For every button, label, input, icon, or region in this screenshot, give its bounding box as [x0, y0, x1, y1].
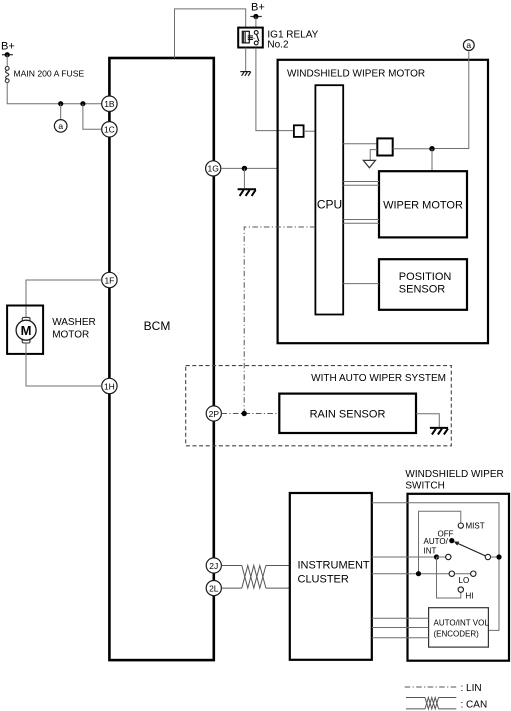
wire cluster to switch row1 [372, 556, 437, 558]
wire junction to circle a [60, 104, 62, 120]
rain sensor box [279, 394, 416, 433]
svg-text:HI: HI [466, 592, 474, 601]
instrument cluster box [290, 493, 372, 660]
wire cluster to encoder 2 [372, 627, 429, 629]
svg-text:INSTRUMENT: INSTRUMENT [298, 560, 370, 572]
svg-text:INT: INT [424, 546, 437, 555]
encoder box [429, 608, 489, 647]
svg-text:B+: B+ [1, 41, 15, 53]
contact row2 right [471, 571, 476, 576]
wire cluster to switch common (top) [372, 503, 499, 631]
wire cluster to encoder 3 [372, 637, 429, 639]
svg-text:No.2: No.2 [267, 39, 289, 50]
svg-text:a: a [466, 40, 471, 50]
wire CPU to position sensor [343, 283, 379, 285]
connector 1G [206, 161, 221, 176]
svg-text:LO: LO [459, 576, 470, 585]
wire relay coil to ground [245, 48, 247, 72]
svg-text:B+: B+ [251, 2, 265, 14]
wire HI branch [437, 557, 461, 598]
wiper motor inner box [379, 171, 467, 237]
wire B+ to fuse [6, 55, 8, 67]
node B+ (battery, left) [1, 41, 15, 58]
washer motor box [7, 306, 43, 354]
svg-text:MOTOR: MOTOR [52, 330, 89, 341]
position sensor box [379, 259, 467, 310]
svg-text:WASHER: WASHER [52, 317, 96, 328]
rotary pivot node [449, 538, 454, 543]
wire B+ to relay switch [255, 17, 257, 28]
wire common to right rail [491, 556, 499, 558]
legend LIN line [405, 686, 458, 688]
wire cluster to encoder 1 [372, 617, 429, 619]
svg-text:1C: 1C [104, 125, 115, 135]
contact row2 left [449, 571, 454, 576]
node junction to a [58, 101, 63, 106]
node junction right rail [496, 554, 501, 559]
wire a down to motor node [435, 51, 469, 148]
svg-text:SENSOR: SENSOR [399, 284, 446, 296]
contact HI [458, 587, 463, 592]
wire CPU to wiper motor pair1 [343, 182, 379, 186]
svg-text:1H: 1H [104, 381, 115, 391]
svg-text:WINDSHIELD WIPER: WINDSHIELD WIPER [405, 469, 503, 480]
svg-text:1G: 1G [208, 164, 219, 174]
node junction row2 [416, 571, 421, 576]
svg-text:RAIN SENSOR: RAIN SENSOR [310, 408, 386, 420]
connector 1F [102, 272, 117, 287]
svg-text:: LIN: : LIN [461, 683, 482, 694]
contact row1 [446, 554, 451, 559]
connector 2P [206, 406, 221, 421]
windshield wiper switch box [408, 494, 510, 661]
BCM box [109, 58, 213, 660]
connector 2J [206, 558, 221, 573]
node junction to 1C [80, 101, 85, 106]
svg-text:AUTO/INT VOL: AUTO/INT VOL [434, 618, 490, 627]
rotary arm with arrowhead [454, 542, 486, 556]
svg-text:1B: 1B [104, 99, 115, 109]
wire square to output triangle [370, 150, 377, 161]
wire CPU to drive square [343, 143, 377, 145]
node a (left) [54, 120, 67, 133]
ground (rain sensor) [430, 428, 448, 435]
wire square to CPU [304, 130, 316, 132]
wire square to wiper motor node [393, 148, 432, 150]
contact common [485, 554, 490, 559]
output triangle [363, 160, 375, 167]
svg-text:a: a [58, 121, 63, 131]
relay IG1 RELAY No.2 [238, 28, 263, 48]
svg-text:(ENCODER): (ENCODER) [434, 629, 480, 638]
wire CAN 2J to cluster with twisted pair [221, 566, 289, 589]
svg-text:1F: 1F [104, 275, 114, 285]
CPU box [315, 85, 343, 314]
connector 2L [206, 581, 221, 596]
wire relay switch to CPU input square [256, 48, 294, 131]
wire MIST branch [419, 511, 461, 574]
node B+ (relay) [250, 2, 264, 20]
with auto wiper system dashed box [186, 366, 452, 446]
node junction LIN [242, 411, 247, 416]
legend CAN symbol [406, 698, 456, 709]
svg-text:MAIN 200 A FUSE: MAIN 200 A FUSE [14, 69, 85, 79]
wire fuse to 1B [7, 83, 102, 104]
wire node down to wiper motor [431, 149, 433, 172]
wire BCM top to relay coil [175, 9, 246, 58]
svg-text:POSITION: POSITION [399, 271, 452, 283]
connector square (power in) [294, 125, 304, 137]
connector 1C [102, 122, 117, 137]
wire junction to 1C [83, 104, 102, 130]
ground (relay coil) [240, 72, 250, 76]
svg-text:SWITCH: SWITCH [405, 481, 444, 492]
ground (1G) [238, 189, 256, 196]
svg-text:BCM: BCM [144, 319, 171, 333]
wire 1G to motor box [221, 167, 278, 169]
motor M symbol [16, 317, 36, 343]
svg-text:: CAN: : CAN [461, 699, 488, 710]
node junction ground 1G [242, 166, 247, 171]
wire LIN CPU to rain sensor branch (dash-dot) [244, 227, 315, 414]
svg-text:M: M [21, 323, 32, 338]
wire rain sensor to ground [416, 414, 439, 427]
svg-text:2J: 2J [209, 561, 218, 571]
node a (right) [463, 40, 474, 51]
svg-text:MIST: MIST [466, 521, 485, 530]
svg-text:AUTO/: AUTO/ [424, 537, 449, 546]
wire CPU to wiper motor pair2 [343, 220, 379, 224]
wire junction to ground [243, 168, 245, 188]
connector 1B [102, 96, 117, 111]
wire LIN 2P to rain sensor (dash-dot) [221, 413, 279, 415]
connector 1H [102, 378, 117, 393]
fuse MAIN 200 A FUSE [5, 67, 84, 83]
node switch row1 contact [434, 554, 439, 559]
wire washer motor to 1H [26, 343, 102, 386]
windshield wiper motor box [278, 60, 488, 343]
svg-text:2P: 2P [209, 409, 220, 419]
wire 1F to washer motor [26, 280, 102, 317]
wire cluster to switch row2 [372, 573, 449, 575]
contact MIST [458, 523, 463, 528]
svg-text:CPU: CPU [317, 197, 342, 211]
connector square (motor drive) [377, 138, 392, 155]
svg-text:WINDSHIELD WIPER MOTOR: WINDSHIELD WIPER MOTOR [287, 69, 425, 80]
node junction wiper motor feed [429, 146, 434, 151]
wire row2 bridge [455, 573, 471, 575]
svg-text:CLUSTER: CLUSTER [298, 574, 349, 586]
svg-text:2L: 2L [209, 583, 219, 593]
wire row1 dot to contact [437, 556, 446, 558]
svg-text:WITH AUTO WIPER SYSTEM: WITH AUTO WIPER SYSTEM [311, 373, 446, 384]
svg-text:WIPER MOTOR: WIPER MOTOR [383, 199, 463, 211]
